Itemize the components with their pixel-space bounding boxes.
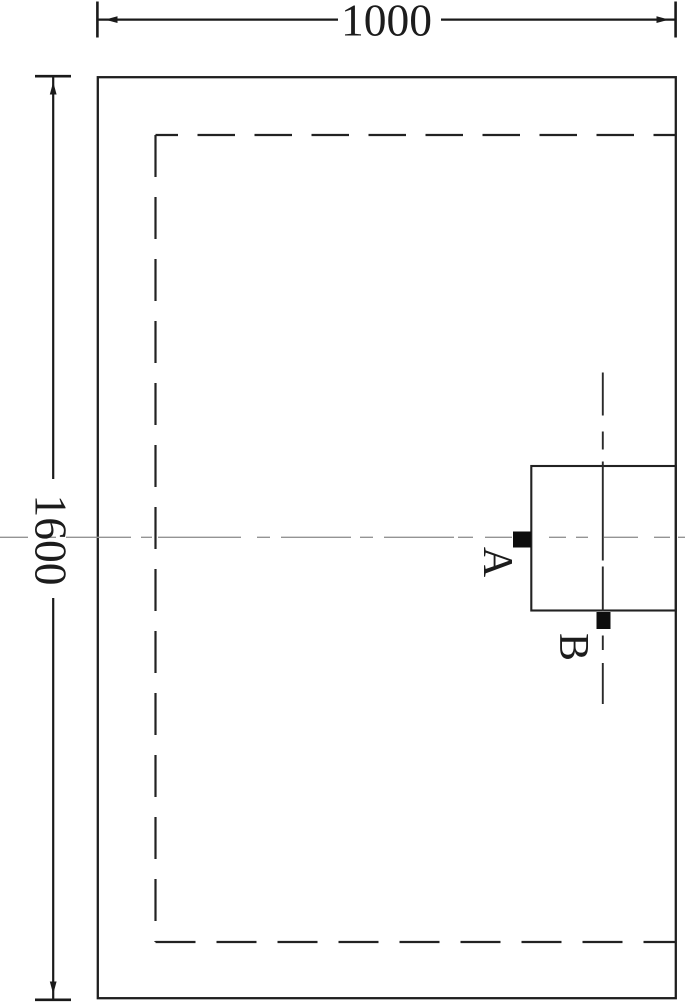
top dimension right extension tick bbox=[674, 2, 677, 38]
gauge point A (filled square) bbox=[513, 532, 531, 548]
svg-text:1600: 1600 bbox=[26, 495, 77, 586]
left dimension top arrowhead bbox=[50, 82, 57, 95]
plate outline rectangle bbox=[98, 77, 676, 998]
vertical centerline of small square bbox=[602, 373, 604, 705]
svg-text:A: A bbox=[474, 547, 520, 578]
top dimension right arrowhead bbox=[657, 16, 670, 23]
svg-text:B: B bbox=[550, 633, 596, 661]
dashed inner boundary bottom edge bbox=[156, 941, 677, 943]
top dimension left extension tick bbox=[96, 2, 99, 38]
top dimension line bbox=[98, 19, 675, 21]
left dimension bottom extension tick bbox=[35, 998, 71, 1001]
dashed inner boundary top edge bbox=[156, 134, 677, 136]
left dimension line bbox=[52, 77, 54, 999]
gauge point B (filled square) bbox=[597, 612, 611, 629]
left dimension top extension tick bbox=[35, 75, 71, 78]
top dimension left arrowhead bbox=[105, 16, 118, 23]
dashed inner boundary left edge bbox=[154, 135, 156, 942]
horizontal centerline bbox=[0, 536, 685, 538]
small square element bbox=[531, 466, 676, 611]
svg-text:1000: 1000 bbox=[341, 0, 432, 46]
left dimension bottom arrowhead bbox=[50, 982, 57, 995]
